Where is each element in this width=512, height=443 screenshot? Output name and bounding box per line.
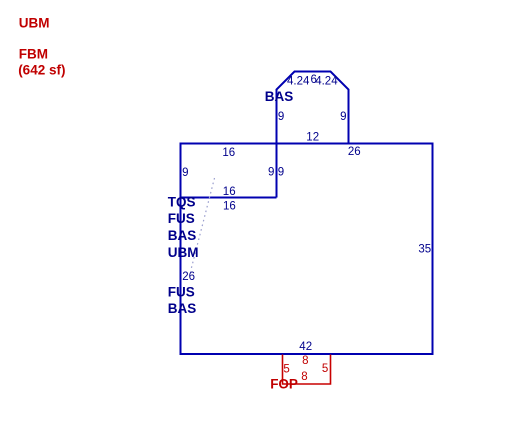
svg-text:BAS: BAS	[168, 228, 197, 243]
svg-text:UBM: UBM	[19, 16, 50, 31]
svg-text:FOP: FOP	[270, 376, 298, 391]
svg-text:9: 9	[278, 167, 284, 179]
svg-text:BAS: BAS	[265, 89, 294, 104]
svg-text:FUS: FUS	[168, 211, 195, 226]
svg-text:(642 sf): (642 sf)	[18, 63, 65, 78]
svg-text:5: 5	[322, 363, 328, 375]
svg-text:FBM: FBM	[19, 47, 48, 62]
svg-text:16: 16	[223, 201, 236, 213]
svg-text:UBM: UBM	[168, 245, 199, 260]
svg-text:26: 26	[182, 271, 195, 283]
wire: main floor outline rectangle 42x35	[181, 144, 433, 355]
svg-text:FUS: FUS	[168, 284, 195, 299]
svg-text:BAS: BAS	[168, 301, 197, 316]
wire: red FOP porch outline 8x5	[283, 355, 331, 385]
svg-text:26: 26	[348, 146, 361, 158]
svg-text:TQS: TQS	[168, 195, 196, 210]
svg-text:9: 9	[182, 167, 188, 179]
wire: notch vertical wall x=276.5	[276, 144, 278, 198]
svg-text:8: 8	[301, 371, 307, 383]
wire: bay window outline (clipped-corner top)	[277, 72, 349, 144]
svg-text:12: 12	[306, 132, 319, 144]
svg-text:16: 16	[223, 186, 236, 198]
svg-text:35: 35	[418, 243, 431, 255]
svg-text:9: 9	[268, 167, 274, 179]
svg-text:4.24: 4.24	[315, 76, 338, 88]
svg-text:5: 5	[283, 363, 289, 375]
svg-text:42: 42	[299, 341, 312, 353]
svg-text:9: 9	[278, 111, 284, 123]
svg-text:4.24: 4.24	[287, 76, 310, 88]
svg-text:9: 9	[340, 111, 346, 123]
svg-text:8: 8	[302, 355, 308, 367]
svg-text:16: 16	[222, 147, 235, 159]
wire: dashed pointer line from label stack	[191, 178, 215, 272]
wire: notch horizontal wall y=197.5	[181, 197, 277, 199]
